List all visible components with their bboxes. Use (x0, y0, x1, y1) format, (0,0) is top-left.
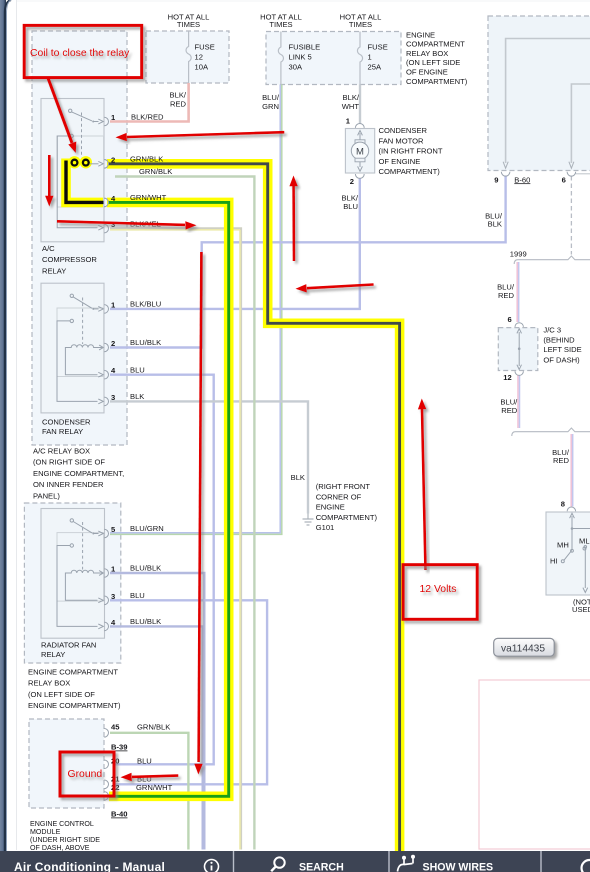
label ENGINE CONTROL MODULE (30, 820, 100, 852)
label engine compartment relay box top (406, 30, 468, 86)
wire BLU/RED connector 1999 to J/C 3 pin 6 (517, 262, 519, 322)
svg-text:CONDENSER: CONDENSER (42, 417, 91, 426)
pin arcs J/C 3 (515, 323, 523, 376)
svg-text:OF ENGINE: OF ENGINE (379, 157, 421, 166)
svg-text:9: 9 (494, 175, 498, 184)
fuse box F12 dashed (146, 31, 229, 83)
wire BLU/BLK relay K3 pin 1 down (110, 573, 204, 850)
svg-text:USED): USED) (572, 605, 590, 614)
svg-text:(RIGHT FRONT: (RIGHT FRONT (316, 482, 371, 491)
svg-text:12: 12 (195, 53, 203, 62)
svg-text:BLU/BLK: BLU/BLK (130, 338, 161, 347)
annotation arrow left mid (296, 284, 374, 292)
svg-text:(ON LEFT SIDE: (ON LEFT SIDE (406, 58, 460, 67)
fuse box engine compartment relay box dashed (266, 32, 401, 85)
svg-text:TIMES: TIMES (349, 20, 372, 29)
svg-text:RELAY BOX: RELAY BOX (28, 679, 70, 688)
svg-text:FUSIBLE: FUSIBLE (289, 43, 321, 52)
label NOT USED (572, 597, 590, 614)
relay K1 internals: common contact to pin 3 (57, 134, 103, 230)
pin arcs relay K2 (104, 305, 108, 406)
wire BLU relay K2 pin 4 to ECM pin 20 (110, 375, 214, 765)
label ENGINE COMPARTMENT RELAY BOX bottom (28, 668, 121, 711)
svg-text:TIMES: TIMES (269, 20, 292, 29)
label FUSE 12 10A (195, 43, 215, 72)
relay K1 A/C compressor relay outer box (41, 99, 104, 242)
ground G101 symbol (303, 514, 314, 526)
svg-text:RELAY: RELAY (41, 650, 65, 659)
annotation long arrow left to pin 1 area (116, 132, 285, 141)
annotation arrow right along pin 3 row (57, 221, 197, 229)
label CONDENSER FAN MOTOR (379, 126, 443, 176)
svg-text:BLU/BLK: BLU/BLK (130, 564, 161, 573)
svg-text:Air Conditioning - Manual: Air Conditioning - Manual (14, 860, 165, 872)
annotation box 12 Volts (403, 565, 477, 620)
label BLU/RED 3 (552, 448, 570, 465)
svg-text:Ground: Ground (68, 769, 103, 780)
pin arcs ECM (104, 729, 108, 801)
relay K1 internals: switch (69, 109, 104, 156)
svg-text:FUSE: FUSE (195, 43, 215, 52)
svg-text:COMPARTMENT): COMPARTMENT) (316, 513, 378, 522)
svg-text:6: 6 (507, 315, 511, 324)
svg-text:FAN MOTOR: FAN MOTOR (379, 136, 425, 145)
svg-text:2: 2 (111, 339, 115, 348)
label BLU/RED 2 (500, 397, 518, 415)
relay K1 pin labels (111, 113, 172, 230)
label HOT AT ALL TIMES 3 (340, 13, 382, 30)
label BLK and G101 (291, 473, 378, 532)
svg-text:M: M (356, 146, 364, 157)
wire BLK/YEL relay K1 pin 3 down (110, 229, 241, 850)
wire BLK/RED fuse F12 to relay K1 pin 1 (110, 83, 189, 122)
svg-text:RED: RED (498, 291, 515, 300)
relay K2 internals: common contact to pin 3 (57, 319, 103, 404)
svg-text:COMPARTMENT): COMPARTMENT) (379, 167, 441, 176)
svg-text:BLK: BLK (130, 392, 144, 401)
relay K3 internals: switch (70, 519, 103, 570)
svg-text:3: 3 (111, 220, 115, 229)
svg-text:PANEL): PANEL) (33, 491, 60, 500)
radiator relay box dashed (24, 503, 120, 663)
svg-text:OF DASH): OF DASH) (543, 355, 580, 364)
svg-text:LEFT SIDE: LEFT SIDE (543, 345, 581, 354)
svg-text:BLU/BLK: BLU/BLK (130, 617, 161, 626)
pin arcs relay K3 (104, 529, 108, 631)
svg-text:RADIATOR FAN: RADIATOR FAN (41, 640, 96, 649)
svg-text:BLU/: BLU/ (262, 93, 280, 102)
svg-text:LINK 5: LINK 5 (289, 53, 312, 62)
svg-text:CONDENSER: CONDENSER (379, 126, 428, 135)
label HOT AT ALL TIMES 1 (168, 13, 210, 30)
relay K2 internals: switch (70, 294, 103, 344)
annotation arrow 12 volts up (418, 399, 426, 571)
label CONDENSER FAN RELAY (42, 417, 91, 436)
svg-text:BLK: BLK (488, 219, 502, 228)
svg-text:MODULE: MODULE (30, 828, 61, 836)
motor M1 internals (351, 131, 368, 172)
svg-text:OF DASH, ABOVE: OF DASH, ABOVE (30, 844, 90, 852)
svg-text:BLU: BLU (130, 365, 145, 374)
svg-text:CORNER OF: CORNER OF (316, 492, 362, 501)
label BLU/GRN two line (262, 93, 280, 111)
svg-text:GRN/BLK: GRN/BLK (137, 722, 170, 731)
relay K2 internals: coil (65, 345, 103, 377)
relay K2 pin labels (111, 300, 161, 402)
wire BLK/WHT fuse F1 to motor pin 1 (359, 85, 361, 124)
annotation box Coil to close the relay (24, 25, 142, 77)
svg-text:SHOW WIRES: SHOW WIRES (423, 862, 494, 872)
svg-text:25A: 25A (368, 63, 382, 72)
svg-text:BLK/RED: BLK/RED (131, 113, 164, 122)
svg-text:ENGINE: ENGINE (406, 30, 435, 39)
wire BLU/RED bracket to switch pin 8 (571, 434, 573, 507)
ECM box dashed (29, 719, 104, 808)
wire inside relay box to pin 6 (569, 84, 590, 168)
svg-text:BLU: BLU (343, 202, 358, 211)
tooltip va114435 (494, 638, 555, 656)
svg-text:45: 45 (111, 722, 120, 731)
label FUSE 1 25A (368, 43, 388, 72)
label BLK/WHT two line (342, 93, 360, 111)
condenser fan motor M1 box (345, 129, 374, 174)
wire BLU/BLK relay K3 pin 4 down (110, 626, 203, 849)
svg-text:RELAY BOX: RELAY BOX (406, 49, 448, 58)
label 1999 (510, 249, 527, 258)
label J/C 3 pins (503, 315, 511, 382)
connector 1999 bracket (514, 256, 590, 264)
svg-text:COMPARTMENT): COMPARTMENT) (406, 77, 468, 86)
svg-text:8: 8 (561, 500, 565, 509)
svg-text:ENGINE COMPARTMENT: ENGINE COMPARTMENT (28, 668, 118, 677)
labels pin 9 B-60 pin 6 (494, 175, 566, 184)
svg-text:RED: RED (170, 100, 187, 109)
svg-text:10A: 10A (195, 63, 209, 72)
svg-text:3: 3 (111, 393, 115, 402)
svg-text:2: 2 (111, 155, 115, 164)
svg-text:BLK/: BLK/ (170, 91, 187, 100)
annotation arrow ground left (121, 773, 179, 781)
wire inside relay box to pin 9 (503, 39, 590, 169)
fuse F1 symbol (357, 32, 362, 85)
svg-text:30A: 30A (289, 63, 303, 72)
relay K3 radiator fan relay outer box (41, 509, 105, 639)
relay K3 internals: common contact to pin 4 (57, 544, 103, 629)
svg-text:RED: RED (553, 456, 570, 465)
svg-text:ML: ML (579, 537, 590, 546)
svg-text:GRN/BLK: GRN/BLK (130, 154, 163, 163)
svg-text:J/C 3: J/C 3 (543, 326, 561, 335)
svg-text:ENGINE CONTROL: ENGINE CONTROL (30, 820, 94, 828)
svg-text:ENGINE COMPARTMENT): ENGINE COMPARTMENT) (28, 701, 121, 710)
label A/C RELAY BOX (33, 447, 124, 501)
pin arcs B-60 connector (501, 172, 575, 176)
svg-text:(UNDER RIGHT SIDE: (UNDER RIGHT SIDE (30, 836, 100, 844)
pin arcs relay K1 (104, 117, 108, 233)
svg-text:(ON RIGHT SIDE OF: (ON RIGHT SIDE OF (33, 458, 105, 467)
wire BLK relay K2 pin 3 to ground G101 (110, 401, 308, 513)
svg-text:GRN/WHT: GRN/WHT (136, 783, 173, 792)
svg-text:Coil to close the relay: Coil to close the relay (30, 48, 130, 59)
svg-text:GRN: GRN (262, 102, 279, 111)
label HOT AT ALL TIMES 2 (260, 13, 302, 30)
annotation arrow coil diagonal (48, 78, 76, 153)
relay K3 pin labels (111, 524, 164, 627)
labels MH ML HI (550, 537, 590, 566)
svg-text:BLU: BLU (137, 756, 152, 765)
svg-text:ENGINE: ENGINE (316, 503, 345, 512)
annotation box Ground (60, 752, 114, 796)
yellow highlight path GRN/BLK circuit (107, 164, 400, 851)
browser chrome left strip (0, 0, 11, 872)
svg-text:BLK/BLU: BLK/BLU (130, 300, 161, 309)
engine compartment relay box top right dashed (488, 16, 590, 171)
wire BLU/RED J/C 3 pin 12 to bracket (518, 376, 520, 429)
svg-text:RED: RED (501, 406, 518, 415)
svg-text:G101: G101 (316, 523, 335, 532)
label J/C 3 text (543, 326, 581, 365)
label BLK/RED two line (170, 91, 187, 109)
footer toolbar (0, 851, 590, 872)
svg-text:12: 12 (503, 373, 511, 382)
svg-text:OF ENGINE: OF ENGINE (406, 68, 448, 77)
svg-text:3: 3 (111, 592, 115, 601)
svg-text:FUSE: FUSE (368, 43, 388, 52)
relay box dashed outline: A/C relay box (32, 31, 127, 445)
wire GRN/BLK second branch down (115, 177, 254, 850)
svg-text:va114435: va114435 (501, 643, 545, 654)
svg-text:A/C RELAY BOX: A/C RELAY BOX (33, 447, 90, 456)
svg-text:6: 6 (562, 175, 566, 184)
svg-text:GRN/BLK: GRN/BLK (139, 167, 172, 176)
svg-text:B-60: B-60 (514, 175, 530, 184)
annotation arrow down left of relay K1 (45, 155, 53, 207)
svg-text:FAN RELAY: FAN RELAY (42, 427, 83, 436)
svg-text:2: 2 (350, 177, 354, 186)
svg-text:COMPRESSOR: COMPRESSOR (42, 255, 97, 264)
label FUSIBLE LINK 5 30A (289, 43, 321, 72)
annotation arrow up near motor (289, 176, 297, 262)
svg-text:1999: 1999 (510, 249, 527, 258)
svg-text:A/C: A/C (42, 244, 55, 253)
label BLK/BLU motor (342, 193, 359, 211)
wire BLU relay K3 pin 3 to ECM pin 21 (110, 600, 267, 784)
svg-text:12 Volts: 12 Volts (420, 584, 457, 595)
svg-text:ON INNER FENDER: ON INNER FENDER (33, 480, 104, 489)
pin arcs over highlight relay K1 (104, 160, 108, 207)
relay K2 condenser fan relay outer box (41, 283, 104, 413)
svg-text:HI: HI (550, 557, 558, 566)
annotation long vertical arrow down to ECM (194, 252, 202, 775)
label RADIATOR FAN RELAY (41, 640, 96, 659)
svg-text:COMPARTMENT: COMPARTMENT (406, 40, 465, 49)
motor pin labels (346, 117, 354, 186)
junction connector J/C 3 dashed box (498, 328, 538, 371)
wire BLU/GRN fusible link 5 to relay K3 pin 5 (110, 85, 282, 535)
yellow highlight path GRN/WHT circuit (66, 156, 229, 796)
svg-text:1: 1 (368, 53, 372, 62)
svg-text:BLU: BLU (130, 591, 145, 600)
highlighted wire GRN/BLK core relay K1 pin 2 to bottom (108, 164, 400, 851)
svg-text:MH: MH (557, 541, 569, 550)
pink region box bottom right (479, 680, 590, 849)
svg-text:BLU/GRN: BLU/GRN (130, 524, 164, 533)
dashed link pin 6 to connector 1999 (571, 174, 590, 255)
label A/C COMPRESSOR RELAY (42, 244, 97, 275)
J/C 3 internals (517, 329, 522, 370)
label BLU/RED 1 (497, 283, 515, 300)
svg-text:BLK/: BLK/ (343, 93, 360, 102)
heater blower switch box (546, 512, 590, 595)
connector bracket below J/C 3 (512, 428, 590, 436)
svg-text:(BEHIND: (BEHIND (543, 336, 575, 345)
pin arc switch pin 8 (567, 507, 575, 511)
svg-text:B-39: B-39 (111, 743, 127, 752)
svg-text:GRN/WHT: GRN/WHT (130, 193, 167, 202)
svg-text:ENGINE COMPARTMENT,: ENGINE COMPARTMENT, (33, 469, 124, 478)
highlighted wire GRN/BLK core relay K1 coil (66, 160, 104, 203)
svg-text:B-40: B-40 (111, 810, 127, 819)
svg-text:(ON LEFT SIDE OF: (ON LEFT SIDE OF (28, 690, 95, 699)
highlighted wire GRN/WHT core relay K1 pin 4 to ECM pin 22 (108, 202, 229, 796)
wire GRN/BLK ECM pin 45 down (110, 733, 188, 850)
pin arcs motor (355, 124, 364, 179)
label BLU/BLK right (485, 211, 503, 228)
wire BLU/BLK relay K2 pin 2 to connector B-60 pin 9 (110, 176, 506, 348)
switch internals MH ML HI (561, 513, 590, 592)
svg-text:RELAY: RELAY (42, 266, 66, 275)
svg-text:(IN RIGHT FRONT: (IN RIGHT FRONT (379, 147, 443, 156)
label pin 8 (561, 500, 565, 509)
fuse F12 symbol (186, 31, 191, 83)
svg-text:TIMES: TIMES (177, 20, 200, 29)
svg-text:BLK: BLK (291, 473, 305, 482)
relay K3 internals: coil (65, 570, 103, 603)
svg-text:SEARCH: SEARCH (299, 862, 344, 872)
ECM pin labels (111, 722, 173, 818)
wire BLK/BLU motor pin 2 to relay K2 pin 1 (110, 179, 360, 309)
fusible link 5 symbol (278, 32, 283, 85)
svg-text:WHT: WHT (342, 102, 360, 111)
